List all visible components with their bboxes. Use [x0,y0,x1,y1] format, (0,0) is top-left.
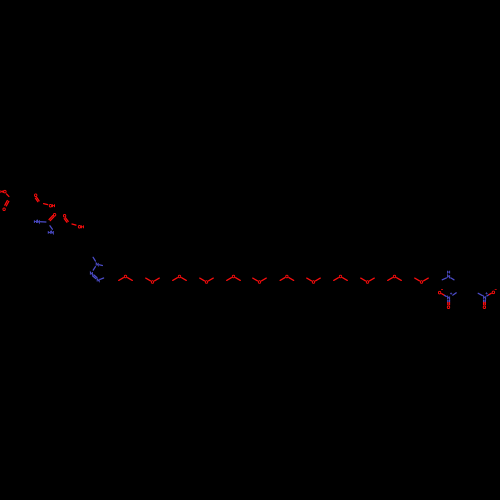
PEG ether oxygen O15 (apex) [388,275,402,280]
nitro group 2 N-O bond red half [489,293,491,294]
triazole CH2-N1 bond stub [93,257,95,261]
PEG ether oxygen O10 (valley) [253,278,267,283]
carboxylic acid 3: hydroxyl label OH [78,225,83,228]
urea carbonyl oxygen O3 [53,213,55,216]
nitro group 1 N-C(ring) bond stub [453,293,456,295]
carboxylic acid 3: carbonyl oxygen O4 [63,215,65,218]
nitro group 2 N-O bond blue half [487,295,489,296]
nitro group 2 N=O double bond blue halves [484,300,486,302]
urea left N-H label [34,220,39,223]
carboxylic acid 3: C-OH bond stub [72,224,76,225]
nitro group 2 oxygen O20 [483,306,485,309]
triazole nitrogen N1 [96,263,98,266]
nitro group 1 nitrogen N+ [448,296,450,299]
nitro group 1 oxygen O18 [447,306,449,309]
nitro group 1 N=O double bond red halves [448,303,450,305]
carboxylic acid 1: C=O double bond [5,201,9,207]
triazole nitrogen N3 [97,279,99,282]
PEG ether oxygen O12 (valley) [307,278,321,283]
urea C-N bond stub [50,226,53,230]
nitro group 2 C(ring)-N bond stub [478,293,482,295]
PEG ether oxygen O8 (valley) [200,278,214,283]
carboxylic acid 1: hydroxyl label HO [1,190,6,193]
aniline N-C(ring) bond stub right [451,278,454,280]
PEG ether oxygen O14 (valley) [361,278,375,283]
nitro group 1 O-N bond blue half [445,295,447,296]
triazole N2=N3 double bond [93,275,97,279]
nitro group 2 anionic oxygen O19 [492,291,494,294]
aniline N-H nitrogen label [448,275,450,278]
nitro group 1 O-N bond red half [442,294,445,296]
PEG ether oxygen O5 (apex) [119,275,133,280]
nitro group 2 minus charge [495,288,497,291]
triazole nitrogen N2 [90,272,92,275]
carboxylic acid 2: C-OH bond stub [44,204,48,205]
nitro group 1 minus charge [441,288,443,291]
carboxylic acid 1: carbonyl oxygen O1 [3,208,5,211]
PEG ether oxygen O13 (apex) [334,275,348,280]
PEG ether oxygen O11 (apex) [280,275,294,280]
carboxylic acid 1: O-C bond stub [7,194,9,197]
aniline N-H hydrogen label [448,271,450,274]
triazole N1-N2 bond [93,267,95,270]
nitro group 2 nitrogen N+ [484,296,486,299]
urea C=O double bond [49,216,54,221]
nitro group 1 N=O double bond blue halves [448,300,450,302]
carboxylic acid 2: hydroxyl label OH [49,204,54,207]
PEG ether oxygen O16 (valley) [415,278,429,283]
nitro group 1 plus charge [450,293,452,295]
nitro group 2 plus charge [486,292,488,294]
PEG ether oxygen O7 (apex) [173,275,187,280]
nitro group 2 N=O double bond red halves [484,302,486,304]
triazole N3-C4 bond stub [100,278,103,279]
aniline C-N bond stub left [442,278,446,280]
urea right N-H label [48,231,53,234]
PEG ether oxygen O9 (apex) [227,275,241,280]
carboxylic acid 3: C=O double bond [64,218,68,222]
triazole N1-C5 bond stub [99,264,102,267]
carboxylic acid 2: C=O double bond [35,197,39,201]
carboxylic acid 2: carbonyl oxygen O2 [35,194,37,197]
PEG ether oxygen O6 (valley) [146,278,160,283]
urea N-C bond [41,221,46,223]
nitro group 1 anionic oxygen O17 [438,291,440,294]
